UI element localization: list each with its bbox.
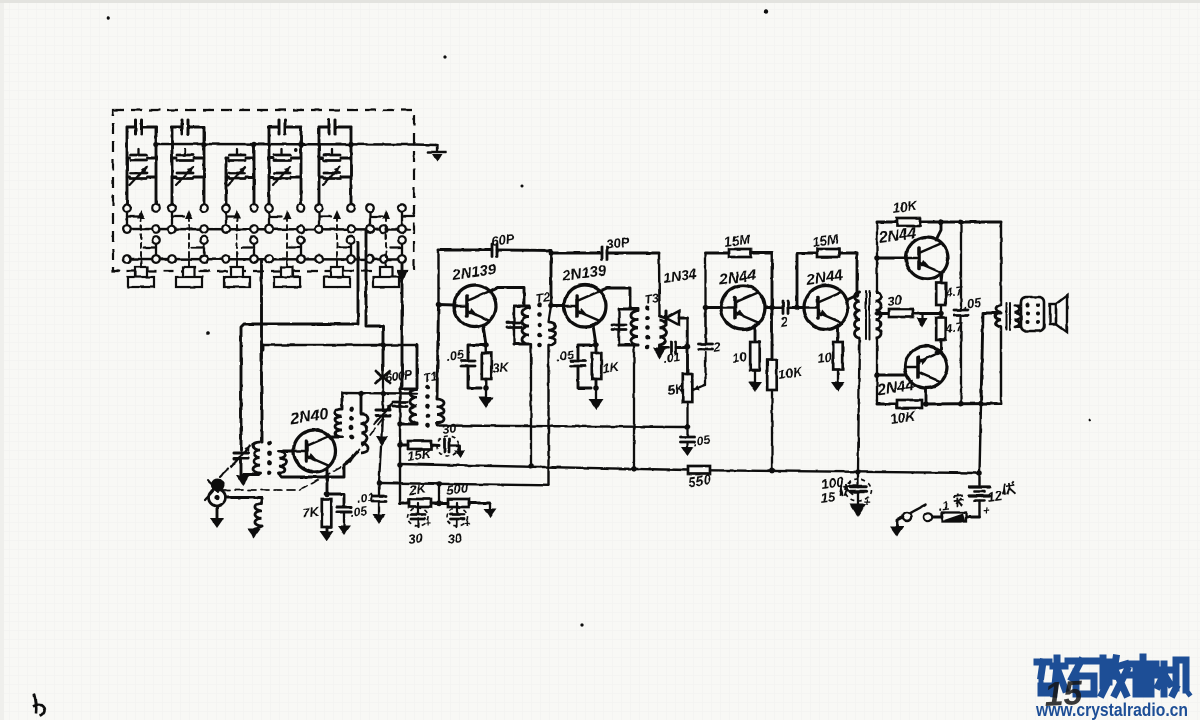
svg-text:+: + [864, 497, 871, 509]
svg-text:.05: .05 [962, 294, 983, 311]
label 2K [407, 481, 428, 499]
label 10K (lower) [889, 408, 917, 426]
label 2N44 (output upper) [877, 225, 917, 247]
node bias centre [938, 305, 944, 318]
output transformer primary [995, 305, 1001, 327]
svg-text:30: 30 [886, 292, 903, 309]
pushbutton 6 [373, 267, 399, 287]
capacitor .05 (2N40 emitter) [337, 507, 351, 512]
wire - driver primary to bus B [855, 338, 861, 475]
padder capacitor section 2 [172, 120, 207, 204]
watermark char 收 [1102, 658, 1127, 694]
wire - AF1 base lead [706, 306, 722, 309]
ground (AF1 emitter) [748, 370, 762, 392]
capacitor 100/15V (electrolytic) [845, 472, 871, 509]
switch contact col 351 row2 [347, 225, 355, 233]
svg-text:12: 12 [986, 488, 1003, 505]
wire - AF2 base node [794, 305, 804, 311]
capacitor 30 (2K bypass) [408, 503, 432, 530]
potentiometer 5K (volume) [683, 346, 693, 426]
resistor 2K [400, 499, 442, 507]
wire - secondary to 2N40 base [279, 450, 294, 453]
label 1A [937, 493, 964, 514]
pushbutton 3 actuator (dashed arrow) [233, 210, 241, 266]
page number [1043, 674, 1084, 714]
switch contact col 402 row2 [398, 225, 406, 233]
padder capacitor section 1 [127, 120, 159, 204]
label 2 (AF1 input) [711, 339, 722, 355]
wire - jack to coupling coil [226, 496, 262, 499]
switch contact col 156 row1 [152, 204, 160, 212]
switch contact col 384 row4 [380, 255, 388, 263]
diode D 1N34 [660, 311, 688, 325]
wire - IF2 base lead [551, 304, 563, 307]
label 15K [406, 446, 433, 464]
svg-text:+: + [983, 505, 990, 517]
switch contact col 204 row1 [200, 204, 208, 212]
switch contact col 254 row2 [250, 225, 258, 233]
wire - emitter to bypass [327, 494, 344, 505]
resistor 30 (bias) [876, 309, 941, 317]
label 2 (interstage) [778, 314, 789, 330]
output transformer secondary [1015, 305, 1021, 327]
wire - upper base column [874, 222, 880, 292]
band switch enclosure (dashed box) [113, 110, 414, 271]
phone jack [209, 489, 226, 506]
svg-text:T3: T3 [643, 291, 659, 307]
switch contact col 301 row2 [297, 225, 305, 233]
ground (7K) [320, 531, 334, 541]
wire - T1 secondary bottom to AVC bus [437, 423, 438, 426]
capacitor .05 (IF2) [571, 345, 596, 388]
wire - switch bus row 4 [125, 258, 402, 261]
wire - upper base lead [877, 257, 906, 260]
IF transformer T3 core [645, 306, 650, 350]
switch contact col 156 row4 [152, 255, 160, 263]
svg-text:www.crystalradio.cn: www.crystalradio.cn [1035, 700, 1188, 720]
wire - IF1 base lead [439, 303, 455, 306]
capacitor .05 (output) [954, 222, 968, 404]
transistor V1 2N40 [294, 430, 336, 472]
scan speck 3 [206, 331, 210, 335]
wire - T1 secondary top to base node [436, 302, 442, 399]
label .05 (2N40) [349, 504, 368, 520]
wire - IF2 emitter [593, 325, 599, 348]
speaker voice coil box [1015, 297, 1045, 331]
wire - switch bus row 2 [125, 228, 410, 231]
driver transformer core [866, 291, 870, 339]
svg-text:15: 15 [819, 489, 836, 506]
wire - band wire to T1 [263, 342, 417, 348]
wire - switch to oscillator padder [366, 231, 383, 370]
wire - lower base column [874, 338, 880, 404]
label 7K [301, 504, 321, 521]
capacitor .01 (detector) [660, 342, 688, 353]
pushbutton 4 [274, 267, 300, 287]
transistor V4 2N44 (1st AF) [721, 286, 765, 330]
label T2 [534, 290, 550, 306]
switch contact pair col 402 (upper) [398, 212, 414, 233]
switch contact col 319 row2 [315, 225, 323, 233]
wire - T2 secondary return [547, 345, 549, 485]
section 3 feed to bus [226, 142, 257, 204]
switch contact pair col 226 (upper) [222, 212, 238, 233]
resistor 10K (lower bias) [897, 400, 922, 408]
fuse 1A [933, 513, 980, 522]
switch contact col 127 row4 [123, 255, 131, 263]
wire - T3 primary bottom to bus B [634, 345, 638, 469]
resistor 4.7 (upper) [936, 283, 946, 305]
capacitor (T2 tank) [507, 306, 521, 344]
label .05 (IF1) [445, 348, 465, 364]
label .05 (bus A) [692, 433, 711, 449]
wire - bus B right [710, 470, 979, 473]
capacitor (T3 tank) [612, 309, 626, 345]
label 2N44 (2nd AF) [804, 267, 844, 289]
wire - T2 secondary top to IF2 base [548, 250, 554, 322]
pushbutton 4 actuator (dashed arrow) [283, 210, 291, 266]
oscillator coil right winding [361, 394, 368, 454]
ground (electrolytic) [850, 504, 867, 517]
switch contact col 402 row1 [398, 204, 406, 212]
oscillator variable capacitor [374, 394, 392, 437]
switch contact pair col 402 (middle) [390, 236, 406, 263]
resistor 3K (IF1 emitter) [482, 345, 492, 391]
switch contact col 156 row2 [152, 225, 160, 233]
capacitor 600P (padder, series X symbol) [376, 370, 390, 394]
transistor V5 2N44 (2nd AF) [804, 286, 848, 330]
svg-text:.01: .01 [662, 350, 681, 366]
wire - AVC bus A [438, 426, 687, 428]
switch contact col 204 row4 [200, 255, 208, 263]
speaker cone [1050, 296, 1067, 333]
IF transformer T2 core [537, 303, 542, 348]
scan speck 2 [443, 55, 446, 58]
padder capacitor section 4 [269, 120, 304, 204]
label 500 [445, 480, 469, 498]
switch contact pair col 204 (middle) [192, 236, 208, 263]
watermark char 机 [1158, 660, 1189, 694]
label 30 (2K) [407, 530, 424, 547]
switch contact col 370 row4 [366, 255, 374, 263]
wire - 2N40 emitter [324, 468, 330, 497]
wire - osc tank top [342, 391, 417, 397]
IF transformer T1 core [425, 385, 430, 428]
wire - output transformer bottom [1000, 327, 1002, 404]
switch contact col 172 row4 [168, 255, 176, 263]
switch contact col 301 row4 [297, 255, 305, 263]
wire - osc coil to 2N40 collector [330, 436, 342, 439]
svg-text:550: 550 [687, 472, 712, 490]
scan speck 6 [580, 623, 583, 626]
ground (AF2 emitter) [831, 370, 845, 392]
label 2N40 [288, 406, 329, 428]
capacitor .01 (AVC bypass) [372, 483, 386, 514]
wire - output transformer top [1000, 222, 1002, 305]
label 1K [601, 359, 621, 376]
trimmer / variable capacitor section 5 [319, 149, 351, 185]
label 1N34 [662, 265, 698, 286]
wire - output bottom bus [877, 401, 1001, 407]
switch contact col 269 row4 [265, 255, 273, 263]
label 2N139 (2nd IF) [560, 262, 608, 285]
pushbutton 2 actuator (dashed arrow) [185, 210, 193, 266]
pushbutton 6 actuator (dashed arrow) [382, 210, 390, 266]
svg-text:+: + [464, 519, 470, 530]
wire - AVC bus C [379, 483, 549, 485]
svg-text:5K: 5K [666, 381, 686, 398]
node bus B / T3 [631, 466, 637, 472]
resistor 1K (IF2 emitter) [592, 345, 602, 391]
label 15M (AF2) [811, 231, 840, 250]
node AVC left [376, 480, 382, 486]
svg-text:.05: .05 [555, 348, 575, 364]
switch contact pair col 254 (middle) [242, 236, 258, 263]
capacitor 30 (AGC) [437, 436, 466, 458]
switch contact pair col 370 (upper) [366, 212, 382, 233]
IF transformer T1 secondary [437, 399, 444, 423]
antenna coil primary [253, 442, 260, 475]
watermark char 音 [1130, 657, 1157, 694]
switch contact pair col 156 (middle) [144, 236, 160, 263]
switch contact col 226 row2 [222, 225, 230, 233]
ground (jack sleeve) [210, 506, 224, 528]
label 10 (AF1) [731, 349, 748, 366]
switch contact col 254 row4 [250, 255, 258, 263]
switch contact col 351 row1 [347, 204, 355, 212]
ground (bias) [917, 314, 928, 328]
scan speck 8 [106, 16, 110, 20]
wire - B+ centre tap [977, 313, 1001, 476]
wire - main return bus B [399, 464, 688, 470]
capacitor 2 (coupling to AF1) [699, 344, 713, 349]
scan mark bottom-left [33, 694, 45, 716]
trimmer / variable capacitor section 4 [269, 149, 301, 185]
trimmer / variable capacitor section 1 [127, 149, 156, 185]
antenna input scribble [205, 469, 228, 500]
label 5K [666, 381, 686, 398]
wire - IF2 collector to T3 [600, 288, 630, 309]
label 2N44 (output lower) [875, 377, 915, 399]
ground (detector) [653, 348, 666, 359]
wire - secondary bottom return [279, 452, 357, 477]
wire - T1 primary top [416, 345, 419, 389]
wire - upper emitter [941, 273, 942, 283]
svg-text:.1: .1 [937, 499, 949, 514]
wire - IF1 emitter [483, 325, 489, 348]
label 30 (AGC) [441, 421, 457, 437]
svg-text:30: 30 [441, 421, 457, 437]
label 10K (upper) [891, 197, 919, 215]
antenna coil secondary [279, 451, 286, 473]
coupling coil (jack) [255, 498, 262, 527]
ground (antenna bus) [428, 145, 446, 162]
label .05 (output) [962, 294, 983, 311]
resistor 10K (upper bias) [897, 218, 920, 226]
capacitor 60P [439, 244, 552, 256]
ground (IF1 emitter) [479, 388, 494, 408]
label 10K (AF1) [777, 364, 804, 382]
node bus B / T2 [528, 463, 534, 469]
scan speck 1 [764, 9, 768, 13]
output transformer core [1007, 303, 1011, 330]
label 30 (500) [446, 530, 463, 547]
switch contact col 370 row2 [366, 225, 374, 233]
IF transformer T2 secondary [549, 322, 556, 345]
switch contact col 204 row2 [200, 225, 208, 233]
resistor 10 (AF2 emitter) [833, 342, 843, 370]
ground (IF2 emitter) [589, 388, 604, 410]
switch contact col 254 row1 [250, 204, 258, 212]
wire - output top bus [877, 219, 1001, 225]
resistor 15K [400, 441, 439, 449]
antenna coil core [267, 441, 272, 476]
wire - T3 secondary bottom [658, 345, 661, 348]
svg-text:10: 10 [731, 349, 748, 366]
switch contact pair col 351 (middle) [339, 236, 355, 263]
label 30 (bias) [886, 292, 903, 309]
wire - AF1 base column [703, 253, 709, 344]
capacitor 30P [551, 247, 659, 259]
wire - T1/AGC dropper column [397, 421, 403, 503]
pushbutton 1 actuator (dashed arrow) [137, 210, 145, 266]
svg-text:.01: .01 [356, 490, 375, 506]
wire - upper collector [936, 222, 941, 240]
wire - 2K/500 junction to bus C [436, 481, 442, 503]
padder capacitor section 5 [319, 120, 354, 204]
switch contact col 319 row1 [315, 204, 323, 212]
ground (.05 2N40) [338, 512, 351, 535]
trimmer / variable capacitor section 3 [226, 149, 254, 185]
wire - lower base lead [877, 374, 905, 377]
svg-text:.05: .05 [692, 433, 711, 449]
capacitor .05 (bus A bypass) [681, 427, 695, 456]
resistor 550 [687, 466, 712, 490]
wire - 30P to detector node [658, 253, 661, 316]
oscillator coil core [349, 407, 354, 440]
capacitor (T1 tank) [393, 389, 407, 424]
switch contact col 301 row1 [297, 204, 305, 212]
capacitor .05 (IF1) [461, 345, 486, 388]
label 4.7 (upper) [943, 284, 964, 301]
svg-text:T2: T2 [534, 290, 550, 306]
label 12V [986, 481, 1015, 505]
antenna trimmer capacitor [231, 446, 250, 474]
switch contact col 269 row1 [265, 204, 273, 212]
label 4.7 (lower) [943, 320, 964, 337]
oscillator cap arrow to AVC line [376, 436, 388, 482]
switch contact col 127 row2 [123, 225, 131, 233]
svg-text:30: 30 [407, 530, 424, 547]
svg-text:.05: .05 [349, 504, 368, 520]
switch contact pair col 319 (upper) [315, 212, 331, 233]
watermark url [1035, 700, 1188, 720]
switch contact col 172 row2 [168, 225, 176, 233]
wire - antenna coil return [241, 473, 258, 476]
ground (.01 AVC) [373, 514, 386, 524]
pushbutton 3 [224, 267, 250, 287]
label 3K [491, 359, 511, 376]
svg-text:500: 500 [445, 480, 469, 498]
switch contact col 370 row1 [366, 204, 374, 212]
resistor 15M (AF2 feedback) [797, 249, 857, 308]
capacitor 2 (interstage) [779, 301, 797, 314]
ground (coupling coil) [248, 526, 263, 538]
pushbutton 2 [176, 267, 202, 287]
ground (500) [484, 503, 497, 518]
svg-text:30: 30 [446, 530, 463, 547]
wire - switch to antenna coil [260, 261, 263, 442]
ground (switch) [890, 517, 904, 536]
switch contact pair col 301 (middle) [289, 236, 305, 263]
IF transformer T3 primary [619, 309, 638, 345]
wire - AF2 emitter [837, 325, 840, 342]
transistor V6 2N44 (output upper) [906, 237, 948, 279]
label .05 (IF2) [555, 348, 575, 364]
label T3 [643, 291, 659, 307]
wire - AF1 collector node [765, 305, 779, 311]
switch contact col 351 row4 [347, 255, 355, 263]
scan speck 7 [294, 148, 298, 152]
wire - AF1 emitter [754, 325, 757, 342]
switch contact col 384 row2 [380, 225, 388, 233]
switch contact pair col 127 (upper) [123, 212, 139, 233]
switch contact col 269 row2 [265, 225, 273, 233]
wire - T1 top from switch [262, 345, 265, 350]
wire - lower collector [925, 388, 928, 404]
label .01 (AVC) [356, 490, 375, 506]
power switch [903, 505, 932, 522]
svg-text:10: 10 [816, 349, 833, 366]
label 15V [819, 482, 852, 506]
trimmer / variable capacitor section 2 [172, 149, 204, 185]
switch contact pair col 269 (upper) [265, 212, 281, 233]
resistor 7K [322, 499, 332, 531]
watermark char 石 [1068, 661, 1096, 694]
switch contact col 402 row4 [398, 255, 406, 263]
wire - switch to antenna trimmer [241, 242, 358, 450]
label 100 [820, 474, 845, 492]
driver transformer secondary [876, 292, 882, 338]
svg-text:.05: .05 [445, 348, 465, 364]
switch contact col 319 row4 [315, 255, 323, 263]
wire - IF1 collector to T2 [490, 288, 524, 307]
wire - AF2 collector to driver transformer [847, 292, 860, 300]
svg-text:+: + [425, 519, 431, 530]
resistor 4.7 (lower) [936, 318, 946, 340]
label 30P [605, 234, 630, 252]
gang dashed link [222, 414, 386, 490]
wire - detector output [685, 318, 691, 349]
switch contact pair col 172 (upper) [168, 212, 184, 233]
transistor V2 2N139 (1st IF) [454, 285, 496, 327]
label .01 (detector) [662, 350, 681, 366]
label T1 [422, 369, 438, 385]
pushbutton 1 [128, 267, 154, 287]
resistor 500 [439, 499, 490, 507]
driver transformer primary [855, 292, 861, 338]
IF transformer T1 primary [400, 389, 417, 424]
label 600P [384, 367, 413, 385]
wire - T2 primary bottom to bus B [530, 344, 532, 466]
scan speck 5 [1089, 419, 1092, 422]
pushbutton 5 [324, 267, 350, 287]
resistor 10 (AF1 emitter) [750, 342, 760, 370]
switch contact col 172 row1 [168, 204, 176, 212]
resistor 10K (AF1 load) [767, 308, 777, 474]
oscillator coil left winding [335, 393, 342, 437]
switch contact col 226 row1 [222, 204, 230, 212]
